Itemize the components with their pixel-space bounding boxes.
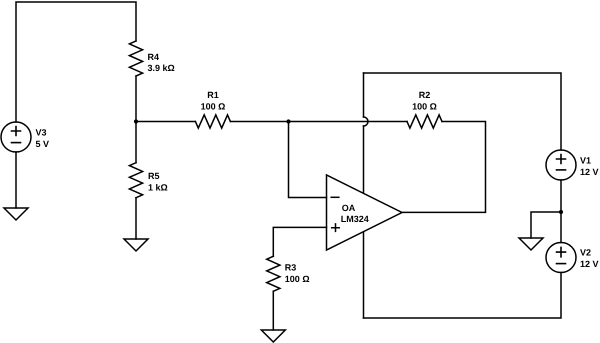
svg-text:R1: R1 (207, 90, 219, 100)
wire top-left loop V3 to R4 (16, 2, 136, 122)
svg-text:1 kΩ: 1 kΩ (148, 183, 168, 193)
node C junction dot (559, 210, 563, 214)
svg-text:R3: R3 (285, 263, 297, 273)
svg-text:3.9 kΩ: 3.9 kΩ (148, 63, 175, 73)
wire node A to R5 (135, 122, 137, 163)
voltage source V1 (546, 150, 576, 180)
wire node C to ground (531, 212, 561, 238)
wire R3 top to non-inverting input (273, 227, 326, 256)
ground (R3) (261, 330, 285, 342)
voltage source V2 (546, 243, 576, 273)
wire V3 to ground (15, 152, 17, 208)
op-amp minus mark (331, 196, 339, 198)
svg-text:V3: V3 (36, 127, 47, 137)
negative power rail from op-amp (363, 232, 365, 318)
resistor R3 (267, 256, 280, 291)
svg-text:R2: R2 (419, 90, 431, 100)
op-amp U1 triangle (327, 175, 403, 250)
wire R2 right down to output (402, 122, 486, 213)
positive power rail with hop over signal wire (363, 73, 365, 117)
wire R3 to ground (272, 291, 274, 330)
svg-text:100 Ω: 100 Ω (412, 101, 437, 111)
svg-text:100 Ω: 100 Ω (285, 274, 310, 284)
svg-text:V2: V2 (580, 248, 591, 258)
wire R4 bottom to node A (135, 76, 137, 122)
wire R5 to ground (135, 198, 137, 239)
svg-text:12 V: 12 V (580, 259, 599, 269)
svg-text:R4: R4 (148, 52, 160, 62)
resistor R4 (129, 41, 142, 76)
svg-text:5 V: 5 V (36, 139, 50, 149)
node B junction dot (286, 119, 290, 123)
ground (R5) (124, 239, 148, 251)
wire R1 to node B (230, 121, 288, 123)
top supply wire to V1 (364, 73, 562, 150)
resistor R2 (407, 115, 442, 128)
resistor R5 (129, 163, 142, 198)
bottom supply wire to V2 (364, 273, 562, 319)
resistor R1 (195, 115, 230, 128)
wire node C to V2 (560, 212, 562, 243)
wire V1 to node C (560, 180, 562, 212)
ground (supply midpoint) (519, 238, 543, 250)
wire node B down to inverting input (289, 122, 327, 198)
svg-text:LM324: LM324 (341, 214, 369, 224)
svg-text:R5: R5 (148, 171, 160, 181)
op-amp plus mark (332, 224, 340, 232)
ground (V3) (4, 208, 28, 220)
wire node B to R2 (crosses power rail) (289, 121, 408, 123)
wire node A to R1 (136, 121, 195, 123)
voltage source V3 (1, 122, 31, 152)
wire hop arc (364, 117, 369, 126)
svg-text:OA: OA (342, 203, 356, 213)
svg-text:100 Ω: 100 Ω (201, 101, 226, 111)
svg-text:V1: V1 (580, 156, 591, 166)
svg-text:12 V: 12 V (580, 167, 599, 177)
node A junction dot (134, 119, 138, 123)
